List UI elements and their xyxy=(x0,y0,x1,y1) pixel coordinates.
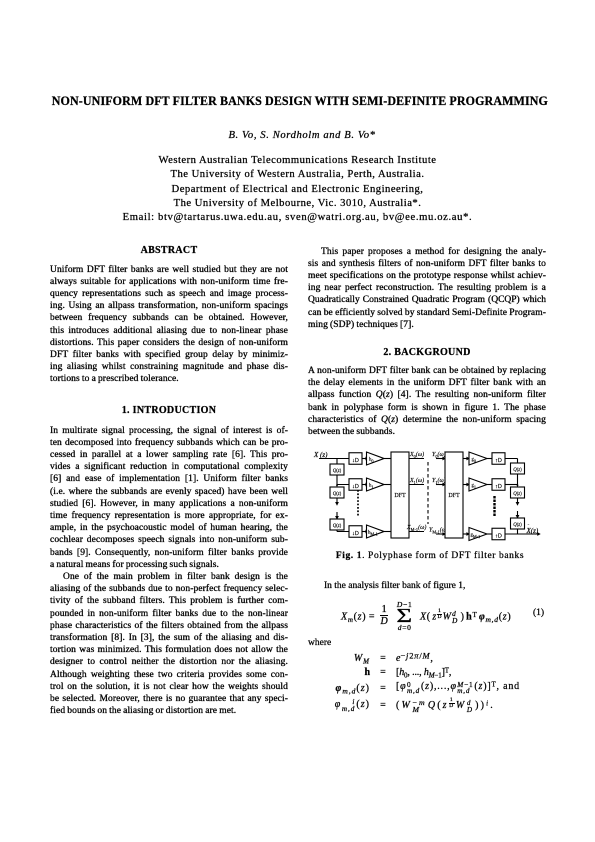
svg-text:XM-1(ω): XM-1(ω) xyxy=(406,524,426,532)
svg-text:X0(ω): X0(ω) xyxy=(409,451,424,459)
svg-text:DFT: DFT xyxy=(394,493,406,499)
svg-text:ˆ: ˆ xyxy=(528,524,530,530)
svg-text:X1(ω): X1(ω) xyxy=(409,477,424,485)
svg-text:X (z): X (z) xyxy=(313,451,328,459)
svg-text:h1: h1 xyxy=(369,484,374,490)
svg-text:g1: g1 xyxy=(472,484,477,490)
svg-text:g0: g0 xyxy=(472,458,477,464)
svg-text:↓D: ↓D xyxy=(352,484,359,490)
svg-text:↓D: ↓D xyxy=(352,531,359,537)
svg-text:hM-1: hM-1 xyxy=(368,531,378,537)
svg-text:↑D: ↑D xyxy=(495,458,502,464)
svg-text:↓D: ↓D xyxy=(352,458,359,464)
svg-text:↑D: ↑D xyxy=(495,534,502,540)
svg-text:DFT: DFT xyxy=(448,493,460,499)
svg-text:↑D: ↑D xyxy=(495,484,502,490)
svg-text:gM-1: gM-1 xyxy=(471,533,481,539)
svg-text:h0: h0 xyxy=(369,458,374,464)
